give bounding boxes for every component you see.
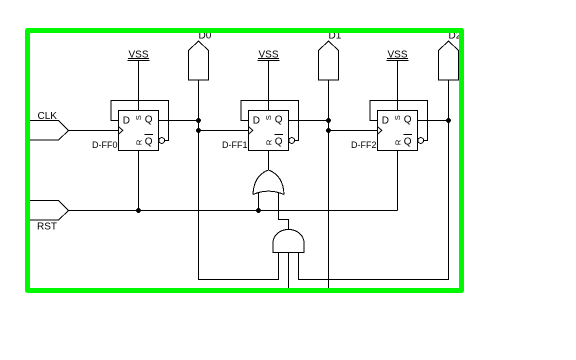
- svg-text:D-FF2: D-FF2: [351, 140, 377, 150]
- svg-text:D-FF0: D-FF0: [92, 140, 118, 150]
- svg-text:RST: RST: [37, 222, 57, 233]
- svg-text:D-FF1: D-FF1: [222, 140, 248, 150]
- svg-text:CLK: CLK: [38, 111, 58, 122]
